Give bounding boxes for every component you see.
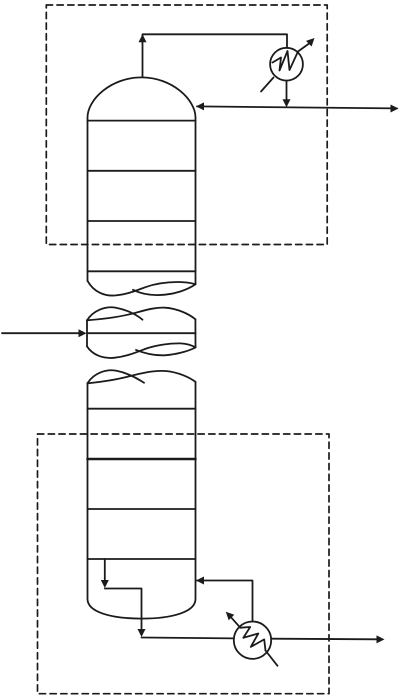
condenser outlet line — [286, 81, 288, 105]
tray 1 — [88, 120, 196, 122]
overhead vapour line — [143, 34, 288, 77]
reboiler heating outlet line — [232, 618, 241, 628]
reflux / distillate line — [197, 106, 397, 108]
condenser circle — [270, 48, 303, 81]
bottoms right arrowhead — [377, 635, 385, 643]
bottoms line right segment — [271, 638, 377, 641]
reboiler heating inlet stub — [266, 651, 278, 666]
condenser coil zigzag — [273, 51, 299, 71]
feed line — [2, 332, 79, 334]
tray 8 — [88, 558, 196, 560]
bottoms outlet arrowhead — [138, 629, 146, 637]
feed arrowhead — [79, 329, 87, 337]
condenser coolant outlet line — [298, 43, 311, 52]
downcomer arrowhead — [101, 580, 109, 588]
vapour line up arrowhead — [139, 34, 147, 42]
upper section bottom break wave — [88, 281, 196, 296]
feed tray line — [87, 332, 196, 334]
condenser coolant inlet stub — [261, 78, 274, 92]
tray 2 — [88, 170, 196, 172]
condenser outlet down arrowhead — [283, 99, 291, 107]
distillate right arrowhead — [391, 105, 399, 113]
reboiler coil zigzag — [240, 627, 265, 651]
bottoms line left segment — [142, 637, 234, 640]
stripping section boundary (dashed box) — [38, 434, 330, 694]
vapour return left arrowhead — [196, 577, 204, 585]
reboiler vapour return line — [197, 581, 253, 622]
tray 5 — [88, 408, 196, 410]
rectifying section boundary (dashed box) — [46, 5, 327, 245]
middle column piece (feed section) — [87, 307, 196, 358]
lower section top break wave — [88, 370, 196, 383]
reboiler circle — [234, 622, 271, 659]
column upper section shell with dome top — [88, 77, 196, 284]
downcomer step to bottoms outlet — [105, 589, 142, 629]
reboiler heating arrowhead — [226, 612, 235, 621]
tray 3 — [88, 220, 196, 222]
column lower section shell with dome bottom — [88, 382, 196, 619]
tray 4 — [88, 270, 196, 272]
reflux left arrowhead — [196, 102, 204, 110]
condenser coolant arrowhead — [306, 38, 315, 47]
bottoms downcomer from tray — [104, 559, 106, 581]
tray 6 (bold) — [88, 458, 196, 461]
tray 7 — [88, 508, 196, 510]
